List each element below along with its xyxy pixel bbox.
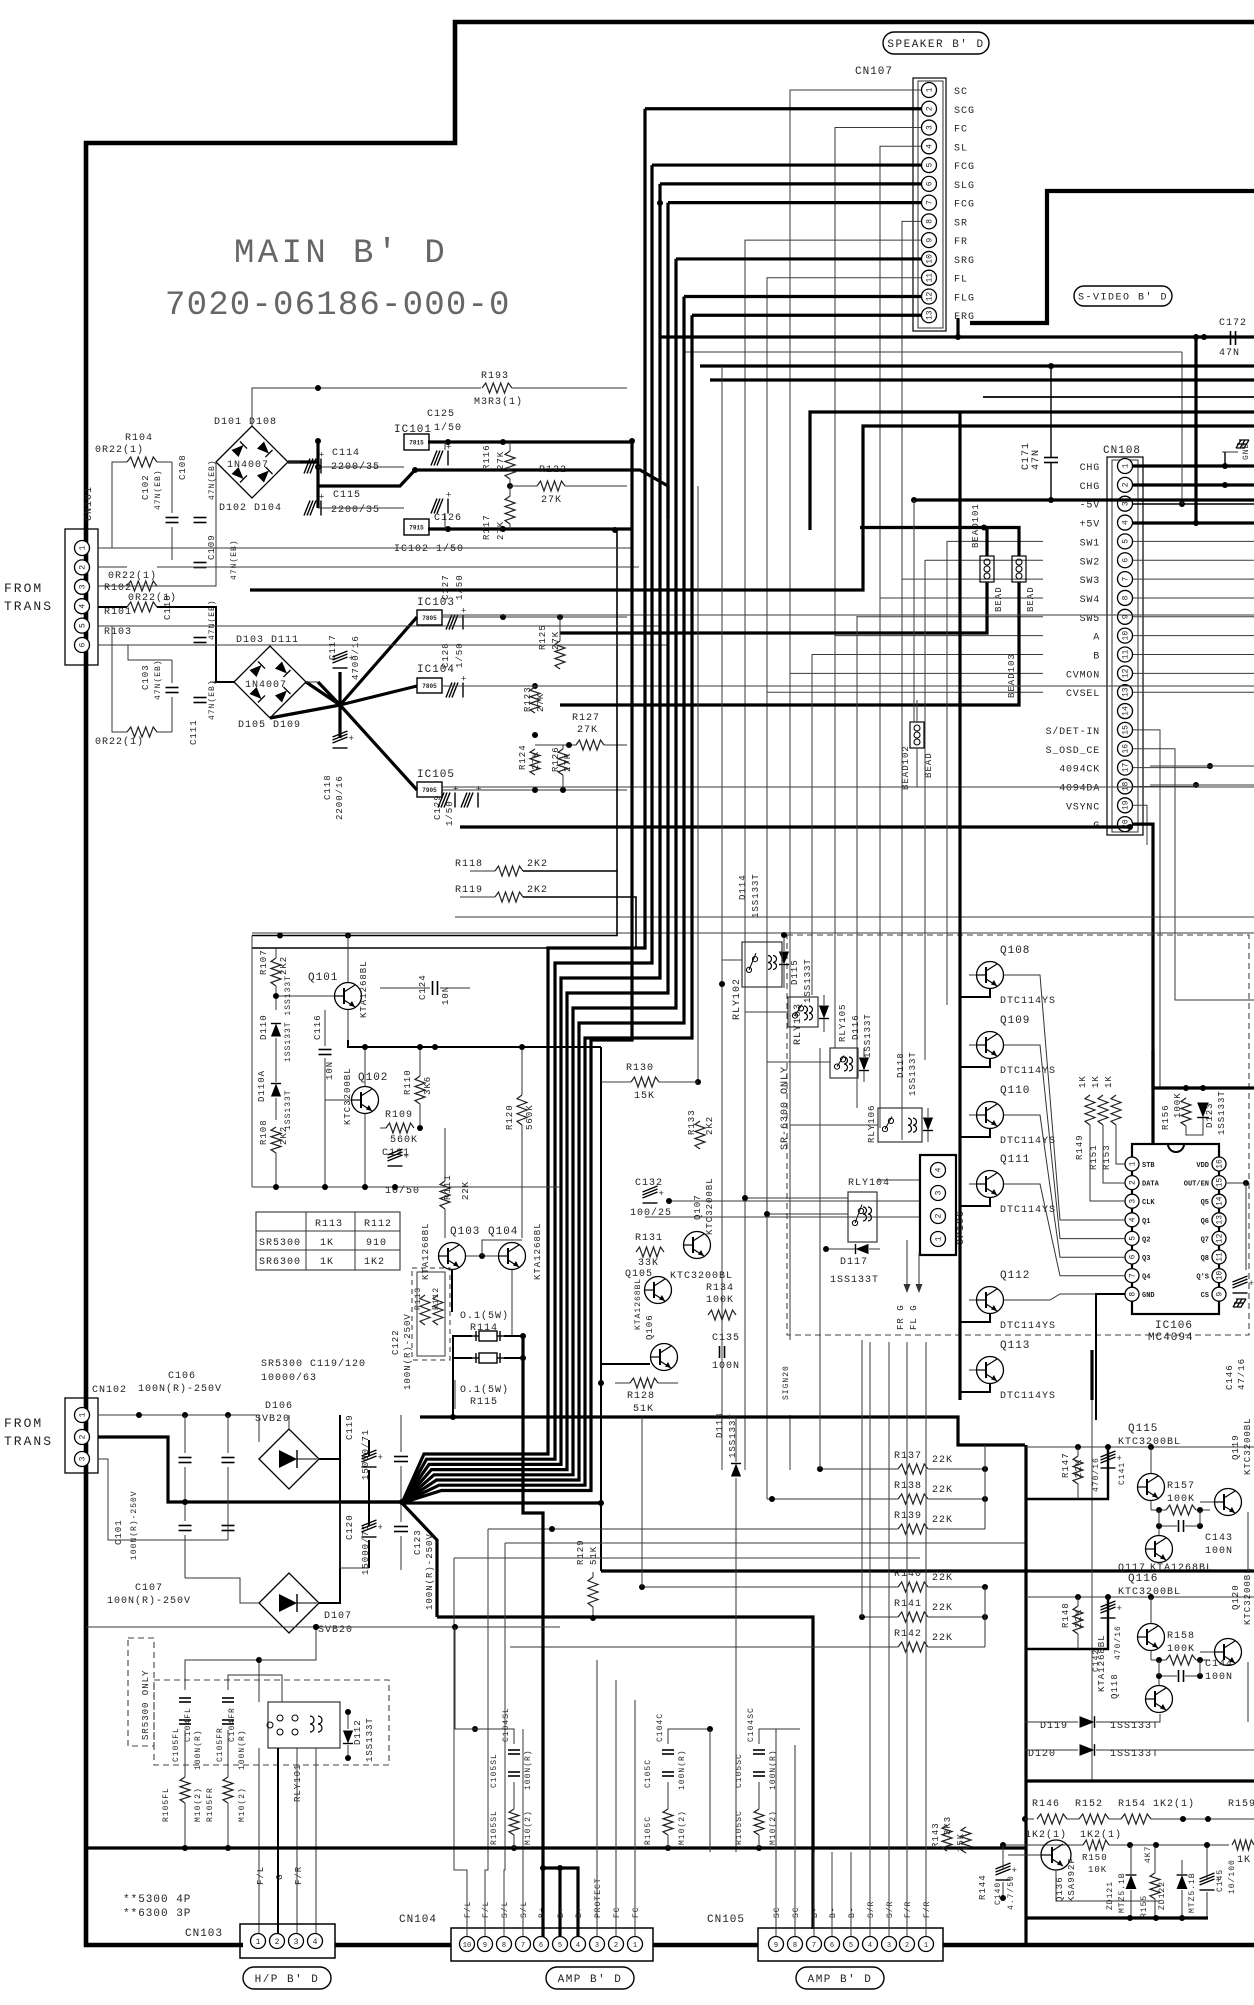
- svg-text:6: 6: [1122, 558, 1131, 563]
- svg-text:DTC114YS: DTC114YS: [1000, 1136, 1056, 1147]
- svg-text:Q1: Q1: [1142, 1218, 1150, 1226]
- svg-text:FCG: FCG: [954, 200, 975, 211]
- pin CN108-5: [1118, 534, 1133, 549]
- svg-text:DATA: DATA: [1142, 1181, 1160, 1189]
- wire bead feed rail: [860, 528, 1019, 557]
- svg-text:B-: B-: [829, 1906, 838, 1918]
- wire q116 rail: [1026, 1596, 1254, 1598]
- svg-text:D105 D109: D105 D109: [238, 720, 301, 731]
- svg-text:C111: C111: [189, 719, 199, 745]
- relay RLY103: [788, 997, 818, 1027]
- svg-text:7020-06186-000-0: 7020-06186-000-0: [165, 287, 511, 325]
- svg-text:R128: R128: [627, 1391, 655, 1402]
- pin CN101-3: [75, 579, 90, 594]
- svg-text:470/16: 470/16: [1114, 1625, 1123, 1660]
- pin CN108-9: [1118, 609, 1133, 624]
- svg-text:D101 D108: D101 D108: [214, 417, 277, 428]
- svg-text:15K: 15K: [634, 1091, 655, 1102]
- pin CN105-2: [900, 1937, 915, 1952]
- svg-text:SVB20: SVB20: [255, 1414, 290, 1425]
- svg-text:D112: D112: [353, 1719, 363, 1745]
- svg-text:M3R3(1): M3R3(1): [474, 396, 523, 408]
- svg-text:CVSEL: CVSEL: [1066, 689, 1100, 700]
- ferrite bead BEAD102: [910, 722, 924, 748]
- svg-text:KTA1268BL: KTA1268BL: [421, 1222, 431, 1280]
- wire IC102 rail right: [810, 412, 1254, 530]
- svg-text:13: 13: [1122, 687, 1131, 697]
- pin IC106-2: [1125, 1176, 1139, 1190]
- svg-text:R104: R104: [125, 433, 153, 444]
- pin CN107-11: [922, 270, 937, 285]
- svg-text:9: 9: [1216, 1292, 1225, 1297]
- pin CN105-1: [919, 1937, 934, 1952]
- diode D123: [1197, 1103, 1209, 1118]
- table R113 R112: [256, 1212, 400, 1270]
- svg-text:3: 3: [935, 1190, 944, 1195]
- svg-text:10: 10: [1122, 631, 1131, 641]
- svg-text:470/16: 470/16: [1092, 1457, 1101, 1492]
- pin CN107-8: [922, 214, 937, 229]
- svg-text:51K: 51K: [633, 1404, 654, 1415]
- svg-text:R141: R141: [894, 1599, 922, 1610]
- pin IC106-1: [1125, 1157, 1139, 1171]
- pin CN103-4: [308, 1934, 323, 1949]
- svg-text:KTC3200BL: KTC3200BL: [1243, 1567, 1253, 1625]
- pin CN107-3: [922, 120, 937, 135]
- svg-text:2: 2: [905, 1942, 909, 1950]
- svg-text:C118: C118: [323, 774, 333, 800]
- svg-text:C104C: C104C: [656, 1713, 665, 1742]
- svg-text:12: 12: [1216, 1233, 1225, 1243]
- wire thin verticals to CN104 pins: [485, 1529, 488, 1936]
- svg-text:2K2: 2K2: [705, 1116, 715, 1135]
- svg-text:4: 4: [313, 1938, 318, 1947]
- svg-text:C114: C114: [332, 448, 360, 459]
- svg-text:SW1: SW1: [1080, 538, 1100, 549]
- wire CN108 signal wires: [947, 540, 1043, 542]
- svg-text:R101: R101: [104, 607, 132, 618]
- svg-text:1: 1: [1122, 463, 1131, 468]
- wire IC102 out: [428, 527, 631, 530]
- wire star out right: [402, 1501, 601, 1504]
- svg-text:R114: R114: [470, 1323, 498, 1334]
- svg-text:7905: 7905: [422, 787, 437, 794]
- wire r137 bus: [984, 1445, 986, 1529]
- svg-text:100N: 100N: [712, 1361, 740, 1372]
- wire driver bottom: [252, 1186, 560, 1188]
- svg-text:SIGN20: SIGN20: [782, 1365, 791, 1400]
- svg-text:MTZ5.1B: MTZ5.1B: [1118, 1872, 1127, 1913]
- wire R122 down: [697, 486, 699, 1082]
- svg-text:14: 14: [1122, 706, 1131, 716]
- svg-text:R124: R124: [518, 744, 528, 770]
- pin IC106-15: [1212, 1176, 1226, 1190]
- svg-text:C140: C140: [994, 1882, 1003, 1905]
- svg-text:M10(2): M10(2): [194, 1787, 203, 1822]
- svg-text:R122: R122: [539, 465, 567, 476]
- svg-text:100N(R): 100N(R): [238, 1729, 247, 1770]
- svg-text:1SS133T: 1SS133T: [830, 1275, 879, 1286]
- pin CN108-11: [1118, 647, 1133, 662]
- svg-text:CN102: CN102: [92, 1385, 127, 1396]
- transistor Q119: [1215, 1489, 1242, 1516]
- svg-text:R116: R116: [482, 444, 492, 470]
- svg-text:R138: R138: [894, 1481, 922, 1492]
- svg-text:100K: 100K: [706, 1295, 734, 1306]
- svg-text:R152: R152: [1075, 1799, 1103, 1810]
- svg-text:Q112: Q112: [1000, 1270, 1030, 1282]
- svg-text:R148: R148: [1061, 1602, 1071, 1628]
- svg-text:22K: 22K: [932, 1633, 953, 1644]
- svg-text:2: 2: [1129, 1180, 1138, 1185]
- svg-text:C116: C116: [313, 1014, 323, 1040]
- svg-text:B-: B-: [811, 1906, 820, 1918]
- svg-text:1K: 1K: [320, 1238, 334, 1249]
- svg-text:C120: C120: [345, 1514, 355, 1540]
- svg-text:KTA1268BL: KTA1268BL: [533, 1222, 543, 1280]
- wire sc wires: [775, 1729, 777, 1936]
- svg-text:47N: 47N: [1219, 348, 1240, 359]
- svg-text:FLG: FLG: [954, 293, 975, 304]
- capacitor C141: [1101, 1451, 1116, 1468]
- svg-text:R107: R107: [259, 949, 269, 975]
- svg-text:SC: SC: [954, 87, 968, 98]
- svg-text:FL: FL: [954, 275, 968, 286]
- pin CN101-6: [75, 638, 90, 653]
- bridge rectifier D107: [259, 1573, 319, 1633]
- svg-text:G: G: [275, 1874, 285, 1880]
- svg-text:+: +: [1117, 1604, 1122, 1614]
- svg-text:R120: R120: [505, 1104, 515, 1130]
- wire IC104 out: [442, 685, 627, 687]
- svg-text:C145: C145: [1216, 1869, 1225, 1892]
- svg-text:SW2: SW2: [1080, 557, 1100, 568]
- svg-text:C115: C115: [333, 490, 361, 501]
- svg-text:GND: GND: [1242, 443, 1251, 460]
- wire OUT/EN: [1227, 1182, 1246, 1184]
- wire IC103 out: [442, 616, 627, 618]
- capacitor C127: [446, 615, 463, 630]
- wire long horizontal nets: [455, 916, 1254, 918]
- pin CN108-3: [1118, 496, 1133, 511]
- wire thin verticals lower relay: [721, 1415, 723, 1470]
- svg-text:12: 12: [1122, 668, 1131, 678]
- wire Q bus vertical: [958, 412, 961, 1400]
- svg-text:C119: C119: [345, 1414, 355, 1440]
- svg-text:C128: C128: [441, 642, 451, 668]
- svg-text:F/L: F/L: [256, 1866, 266, 1885]
- capacitor C144: [1178, 1670, 1180, 1682]
- relay RLY101: [268, 1702, 340, 1748]
- svg-text:S/L: S/L: [520, 1901, 529, 1918]
- wire rail 500: [914, 498, 1254, 501]
- svg-text:D102 D104: D102 D104: [219, 503, 282, 514]
- svg-text:FCG: FCG: [954, 162, 975, 173]
- svg-text:+: +: [1249, 1279, 1254, 1289]
- svg-text:RLY102: RLY102: [732, 978, 743, 1020]
- svg-text:100N(R)-250V: 100N(R)-250V: [138, 1383, 222, 1395]
- svg-text:1K2: 1K2: [364, 1257, 385, 1268]
- pin CN102-2: [75, 1430, 90, 1445]
- svg-text:1: 1: [79, 1412, 88, 1417]
- svg-text:D118: D118: [896, 1052, 906, 1078]
- pin CN105-4: [863, 1937, 878, 1952]
- svg-text:CN101: CN101: [84, 486, 95, 521]
- pin CN101-5: [75, 618, 90, 633]
- pin IC106-9: [1212, 1287, 1226, 1301]
- svg-text:10: 10: [926, 254, 935, 264]
- svg-text:10000/63: 10000/63: [261, 1372, 317, 1384]
- svg-text:B: B: [1093, 652, 1100, 663]
- svg-text:4: 4: [79, 604, 88, 609]
- svg-text:33K: 33K: [638, 1258, 659, 1269]
- resistor R150: [1083, 1840, 1109, 1850]
- svg-text:+: +: [659, 1189, 664, 1199]
- svg-text:FL G: FL G: [909, 1304, 919, 1330]
- svg-text:F/R: F/R: [294, 1866, 304, 1885]
- svg-text:5: 5: [849, 1942, 853, 1950]
- ferrite bead BEAD103: [1012, 556, 1026, 582]
- wire q136 base: [1008, 1854, 1041, 1856]
- svg-text:R130: R130: [626, 1063, 654, 1074]
- wire hp wires: [258, 1748, 260, 1936]
- svg-text:KTC3200BL: KTC3200BL: [343, 1067, 353, 1125]
- pin CN104-8: [497, 1937, 512, 1952]
- pin CN101-1: [75, 541, 90, 556]
- wire Q110 wires: [969, 1114, 976, 1116]
- transistor Q136: [1041, 1840, 1071, 1870]
- svg-text:S_OSD_CE: S_OSD_CE: [1046, 746, 1100, 757]
- svg-text:M10(2): M10(2): [678, 1810, 687, 1845]
- svg-text:C124: C124: [418, 974, 428, 1000]
- svg-text:4: 4: [1122, 520, 1131, 525]
- capacitor C130: [461, 793, 478, 808]
- pin CN101-2: [75, 560, 90, 575]
- svg-text:FR G: FR G: [896, 1304, 906, 1330]
- svg-text:12: 12: [926, 291, 935, 301]
- pin CN104-10: [460, 1937, 475, 1952]
- wire star2: [399, 1499, 405, 1505]
- svg-text:RLY105: RLY105: [838, 1004, 848, 1042]
- label AMP B' D 2: [796, 1967, 884, 1989]
- pin CN107-1: [922, 83, 937, 98]
- wire Q136 emitter: [1056, 1870, 1160, 1901]
- svg-text:-5V: -5V: [1080, 501, 1100, 512]
- pin CP106-4: [931, 1163, 946, 1178]
- svg-text:CHG: CHG: [1080, 482, 1100, 493]
- svg-text:100N(R)-250V: 100N(R)-250V: [107, 1595, 191, 1607]
- wire CN108 right wires: [1133, 464, 1254, 467]
- svg-text:C105SC: C105SC: [735, 1753, 744, 1788]
- wire driver top nets: [277, 933, 283, 939]
- svg-text:5: 5: [1129, 1236, 1138, 1241]
- svg-text:RLY101: RLY101: [293, 1764, 303, 1802]
- pin CN108-14: [1118, 704, 1133, 719]
- svg-text:1SS133T: 1SS133T: [751, 873, 761, 918]
- svg-text:VSYNC: VSYNC: [1066, 802, 1100, 813]
- pin IC106-5: [1125, 1231, 1139, 1245]
- svg-text:S/L: S/L: [501, 1901, 510, 1918]
- svg-text:H/P B' D: H/P B' D: [255, 1974, 320, 1986]
- pin CN107-4: [922, 139, 937, 154]
- svg-text:S-VIDEO B' D: S-VIDEO B' D: [1078, 292, 1168, 304]
- svg-text:C129: C129: [433, 794, 443, 820]
- wire net below: [340, 1567, 369, 1569]
- capacitor C126: [431, 499, 448, 514]
- pin CN107-5: [922, 158, 937, 173]
- svg-text:DTC114YS: DTC114YS: [1000, 1391, 1056, 1402]
- pin CN105-6: [825, 1937, 840, 1952]
- pin IC106-13: [1212, 1213, 1226, 1227]
- svg-text:3: 3: [595, 1942, 599, 1950]
- svg-text:KTC3200BL: KTC3200BL: [1118, 1437, 1181, 1448]
- svg-text:D103 D111: D103 D111: [236, 635, 299, 646]
- svg-text:0R22(1): 0R22(1): [95, 736, 144, 748]
- wire thick horizontal 827: [460, 825, 1130, 828]
- pin CN107-10: [922, 251, 937, 266]
- wire CN102 net1: [98, 1414, 259, 1416]
- diode D117: [856, 1244, 869, 1254]
- svg-text:FC: FC: [954, 125, 968, 136]
- pin IC106-6: [1125, 1250, 1139, 1264]
- pin IC106-10: [1212, 1269, 1226, 1283]
- svg-text:2: 2: [275, 1938, 280, 1947]
- svg-text:1K2(1): 1K2(1): [1025, 1829, 1067, 1841]
- capacitor C128: [446, 683, 463, 698]
- svg-text:+: +: [1012, 1866, 1017, 1876]
- svg-text:1: 1: [79, 545, 88, 550]
- svg-text:100K: 100K: [1173, 1092, 1183, 1118]
- pin CP106-1: [931, 1232, 946, 1247]
- svg-text:C104SC: C104SC: [747, 1707, 756, 1742]
- svg-text:R159: R159: [1228, 1799, 1254, 1810]
- svg-text:100N: 100N: [1205, 1672, 1233, 1683]
- pin CN107-6: [922, 176, 937, 191]
- svg-text:C101: C101: [114, 1519, 124, 1545]
- pin CN104-6: [534, 1937, 549, 1952]
- pin CN103-1: [251, 1934, 266, 1949]
- svg-text:C105C: C105C: [644, 1759, 653, 1788]
- wire thick 1415: [420, 1417, 1025, 1445]
- pin CN102-3: [75, 1452, 90, 1467]
- wire Q109 wires: [969, 1044, 976, 1046]
- svg-text:Q119: Q119: [1231, 1434, 1241, 1460]
- pin CN105-7: [807, 1937, 822, 1952]
- svg-text:1/50: 1/50: [445, 800, 455, 826]
- svg-text:C102: C102: [141, 474, 151, 500]
- pin CN108-12: [1118, 666, 1133, 681]
- svg-text:5: 5: [558, 1942, 562, 1950]
- wire fc wires: [596, 1660, 598, 1936]
- svg-text:D110A: D110A: [257, 1070, 267, 1102]
- pin CN108-18: [1118, 779, 1133, 794]
- svg-text:1: 1: [926, 87, 935, 92]
- svg-text:ZD122: ZD122: [1158, 1881, 1167, 1910]
- ferrite bead BEAD101: [980, 556, 994, 582]
- svg-text:R103: R103: [104, 627, 132, 638]
- svg-text:Q108: Q108: [1000, 945, 1030, 957]
- svg-text:R105SC: R105SC: [735, 1810, 744, 1845]
- svg-text:SC: SC: [792, 1906, 801, 1918]
- svg-text:5: 5: [79, 623, 88, 628]
- dashed box relay101: [154, 1680, 389, 1765]
- ground GND top right: [1236, 440, 1249, 448]
- svg-text:MAIN B' D: MAIN B' D: [234, 235, 448, 273]
- svg-text:27K: 27K: [541, 495, 562, 506]
- svg-text:3: 3: [1129, 1199, 1138, 1204]
- svg-text:10K: 10K: [1088, 1865, 1107, 1875]
- svg-text:F/L: F/L: [464, 1901, 473, 1918]
- svg-text:SPEAKER B' D: SPEAKER B' D: [887, 39, 984, 51]
- svg-text:Q3: Q3: [1142, 1255, 1150, 1263]
- svg-text:Q116: Q116: [1128, 1573, 1158, 1585]
- svg-text:Q'S: Q'S: [1196, 1274, 1209, 1282]
- pin CP106-3: [931, 1186, 946, 1201]
- svg-text:1: 1: [935, 1236, 944, 1241]
- svg-text:Q8: Q8: [1201, 1255, 1209, 1263]
- svg-text:6: 6: [539, 1942, 543, 1950]
- svg-text:27K: 27K: [496, 521, 506, 540]
- svg-text:100K: 100K: [1167, 1644, 1195, 1655]
- svg-text:DTC114YS: DTC114YS: [1000, 996, 1056, 1007]
- wire C114 net: [288, 460, 318, 463]
- svg-text:1: 1: [924, 1942, 928, 1950]
- svg-text:M10(2): M10(2): [769, 1810, 778, 1845]
- wire bead102 wires: [916, 700, 918, 722]
- svg-text:GND: GND: [1142, 1292, 1155, 1300]
- svg-text:R105FL: R105FL: [162, 1787, 171, 1822]
- svg-text:R119: R119: [455, 885, 483, 896]
- wire Q103 Q104: [466, 1255, 498, 1257]
- svg-text:3K6: 3K6: [423, 1076, 433, 1095]
- svg-text:R131: R131: [635, 1233, 663, 1244]
- svg-text:+: +: [319, 493, 324, 503]
- svg-text:C108: C108: [178, 454, 188, 480]
- svg-text:15: 15: [1216, 1178, 1225, 1188]
- svg-text:C141: C141: [1118, 1462, 1127, 1485]
- pin CN107-12: [922, 289, 937, 304]
- svg-text:+: +: [319, 451, 324, 461]
- pin CN108-8: [1118, 590, 1133, 605]
- pin IC106-7: [1125, 1269, 1139, 1283]
- svg-text:+: +: [349, 734, 354, 744]
- svg-text:1K: 1K: [1237, 1855, 1251, 1866]
- pin CN105-5: [844, 1937, 859, 1952]
- svg-text:10: 10: [1216, 1271, 1225, 1281]
- transistor Q120: [1215, 1639, 1242, 1666]
- svg-text:SCG: SCG: [954, 106, 975, 117]
- svg-text:6: 6: [926, 181, 935, 186]
- svg-text:R144: R144: [978, 1874, 988, 1900]
- svg-text:R140: R140: [894, 1569, 922, 1580]
- svg-text:SC: SC: [773, 1906, 782, 1918]
- svg-text:3: 3: [887, 1942, 891, 1950]
- svg-text:0R22(1): 0R22(1): [95, 444, 144, 456]
- pin CN103-3: [289, 1934, 304, 1949]
- svg-text:1K: 1K: [1091, 1075, 1101, 1088]
- relay RLY105: [830, 1048, 858, 1078]
- svg-text:CN104: CN104: [399, 1914, 437, 1926]
- wire caps bus 1848: [86, 1846, 1025, 1849]
- capacitor C107b: [222, 1457, 235, 1459]
- wire q115 rail: [1026, 1446, 1254, 1448]
- svg-text:8: 8: [926, 219, 935, 224]
- wire IC105 out: [442, 789, 627, 791]
- svg-text:SR: SR: [954, 218, 968, 229]
- svg-text:Q109: Q109: [1000, 1015, 1030, 1027]
- svg-text:Q101: Q101: [308, 972, 338, 984]
- pin CN108-4: [1118, 515, 1133, 530]
